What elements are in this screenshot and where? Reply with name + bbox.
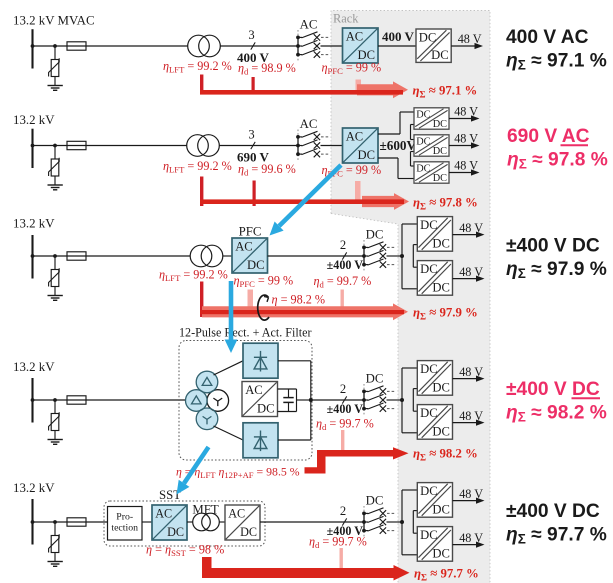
svg-text:±400 V DC: ±400 V DC bbox=[506, 379, 600, 400]
svg-text:DC: DC bbox=[433, 119, 447, 130]
thyristor rectifier U11 row 4 bottom bbox=[243, 423, 278, 458]
svg-text:48 V: 48 V bbox=[459, 487, 483, 501]
efficiency bracket bar eta_LFT row 1 bbox=[200, 75, 203, 95]
flow arrow row4 to row5 bbox=[177, 447, 209, 495]
svg-text:DC: DC bbox=[420, 528, 438, 542]
efficiency bracket bar eta_PFC row 3 bbox=[248, 290, 254, 318]
SST dashed box bbox=[104, 501, 265, 546]
svg-text:AC: AC bbox=[155, 507, 172, 521]
svg-text:DC: DC bbox=[433, 173, 447, 184]
efficiency horizontal bar row 2 bbox=[200, 199, 404, 204]
conductor count tick 2 row 3 bbox=[340, 238, 347, 260]
wire 48V output arrow 1 row 5 bbox=[453, 487, 485, 504]
svg-text:13.2 kV: 13.2 kV bbox=[13, 360, 55, 374]
svg-text:DC: DC bbox=[432, 503, 450, 517]
wire series link a row 2 bbox=[411, 124, 415, 126]
conductor count tick 3 row 2 bbox=[248, 128, 255, 150]
wire 48V output arrow 1 row 3 bbox=[453, 221, 485, 238]
rectifier U7 PFC AC/DC row 3 bbox=[232, 238, 268, 273]
svg-text:DC: DC bbox=[420, 362, 438, 376]
junction on bus row 3 bbox=[31, 254, 35, 258]
rectifier U3 AC/DC PFC row 2 bbox=[343, 128, 379, 163]
wire switch to junction row 4 bbox=[387, 399, 403, 401]
fuse F2 bbox=[67, 145, 86, 147]
active filter U12 AC/DC row 4 bbox=[242, 382, 278, 417]
converter U2 DC/DC row 1 bbox=[416, 29, 451, 62]
svg-text:AC: AC bbox=[228, 507, 245, 521]
junction on bus row 1 bbox=[31, 44, 35, 48]
svg-text:48 V: 48 V bbox=[459, 365, 483, 379]
wire fuse to transformer row 1 bbox=[86, 45, 188, 47]
wire SST to switch row 5 bbox=[260, 521, 364, 523]
efficiency bracket bar eta_d row 2 bbox=[253, 181, 256, 207]
svg-text:DC: DC bbox=[257, 402, 275, 416]
protection box row 5 bbox=[108, 507, 143, 541]
rectifier U1 AC/DC PFC bbox=[343, 28, 379, 63]
bus bar row 5 bbox=[31, 499, 33, 545]
transformer MFT row 5 bbox=[193, 513, 211, 531]
wire +600V to stack row 2 bbox=[378, 133, 400, 135]
svg-text:DC: DC bbox=[432, 281, 450, 295]
flow arrow row2 to row3 bbox=[270, 165, 342, 236]
junction dc node row 4 bbox=[309, 398, 313, 402]
wire arrester to ground row 3 bbox=[54, 287, 56, 296]
svg-text:13.2 kV: 13.2 kV bbox=[13, 481, 55, 495]
result label row 1 bbox=[506, 27, 607, 72]
wire arrester stub row 3 bbox=[54, 256, 56, 270]
wire bus to fuse row 4 bbox=[33, 399, 68, 401]
surge arrester MOV row 5 bbox=[51, 536, 59, 553]
efficiency bracket bar eta_PFC row 1 bbox=[356, 80, 362, 91]
wire arrester to ground row 4 bbox=[54, 431, 56, 440]
capacitor C1 row 4 bbox=[288, 389, 290, 398]
efficiency arrow row 2 bbox=[362, 193, 409, 210]
junction arrester tap row 3 bbox=[53, 254, 57, 258]
wire fuse to transformer row 3 bbox=[86, 255, 190, 257]
fuse F4 bbox=[67, 399, 86, 401]
wire switch to junction row 3 bbox=[387, 255, 403, 257]
bus bar row 1 bbox=[31, 29, 33, 68]
efficiency bracket bar eta_PFC row 2 bbox=[355, 181, 361, 201]
wire protection to converter row 5 bbox=[142, 521, 152, 523]
converter U8 DC/DC row 3 top bbox=[417, 217, 452, 252]
wire fuse to SST row 5 bbox=[86, 521, 107, 523]
ground row 2 bbox=[48, 184, 63, 186]
surge arrester MOV row 1 bbox=[51, 60, 59, 77]
svg-text:2: 2 bbox=[340, 504, 346, 518]
svg-text:AC: AC bbox=[346, 30, 364, 44]
svg-text:PFC: PFC bbox=[239, 225, 262, 239]
junction arrester tap row 1 bbox=[53, 44, 57, 48]
svg-text:DC: DC bbox=[432, 381, 450, 395]
svg-text:DC: DC bbox=[416, 164, 430, 175]
switch-fuse group AC row 2 bbox=[296, 117, 329, 162]
result label row 3 bbox=[506, 236, 607, 281]
efficiency bracket bar eta_LFT row 2 bbox=[200, 177, 203, 207]
result label row 5 bbox=[506, 501, 607, 546]
efficiency horizontal bar row 1 bbox=[200, 90, 403, 95]
bus bar row 2 bbox=[31, 129, 33, 168]
wire transformer to switch row 2 bbox=[219, 145, 298, 147]
svg-text:DC: DC bbox=[432, 547, 450, 561]
svg-text:DC: DC bbox=[432, 237, 450, 251]
converter U4 DC/DC row 2 top bbox=[414, 108, 449, 130]
svg-text:400 V: 400 V bbox=[382, 29, 415, 44]
conductor count tick 2 row 5 bbox=[340, 504, 347, 526]
wire arrester to ground row 2 bbox=[54, 176, 56, 185]
surge arrester MOV row 2 bbox=[51, 159, 59, 176]
wire capacitor bus to node row 4 bbox=[297, 399, 311, 401]
surge arrester MOV row 4 bbox=[51, 414, 59, 431]
svg-text:3: 3 bbox=[248, 128, 254, 142]
fuse F1 bbox=[67, 45, 86, 47]
converter U15 AC/DC SST row 5 bbox=[152, 505, 187, 540]
wire 48V output arrow 2 row 4 bbox=[453, 409, 485, 426]
svg-text:DC: DC bbox=[247, 258, 265, 272]
converter U9 DC/DC row 3 bottom bbox=[417, 261, 452, 296]
svg-text:3: 3 bbox=[248, 28, 254, 42]
junction on bus row 4 bbox=[31, 398, 35, 402]
wire 48V output arrow 2 row 5 bbox=[453, 531, 485, 548]
wire transformer to switch row 1 bbox=[220, 45, 298, 47]
svg-text:DC: DC bbox=[240, 525, 257, 539]
svg-text:DC: DC bbox=[419, 31, 437, 45]
switch-fuse group DC row 4 bbox=[362, 372, 395, 417]
wire bus to fuse row 3 bbox=[33, 255, 68, 257]
svg-text:AC: AC bbox=[346, 130, 364, 144]
efficiency arrow row 3 bbox=[202, 303, 408, 320]
wire top thyristor to dc node row 4 bbox=[278, 360, 311, 362]
three-winding transformer cluster row 4 bbox=[186, 371, 229, 429]
svg-text:DC: DC bbox=[420, 218, 438, 232]
bus bar row 4 bbox=[31, 378, 33, 423]
wire fuse to transformer row 2 bbox=[86, 145, 187, 147]
wire cluster to bottom thyristor row 4 bbox=[214, 426, 244, 440]
wire arrester stub row 5 bbox=[54, 522, 56, 536]
wire arrester stub row 2 bbox=[54, 146, 56, 160]
svg-text:690 V AC: 690 V AC bbox=[507, 126, 590, 147]
wire bottom thyristor to dc node row 4 bbox=[278, 439, 311, 441]
wire arrester stub row 1 bbox=[54, 46, 56, 60]
wire bus to fuse row 2 bbox=[33, 145, 68, 147]
svg-text:DC: DC bbox=[416, 110, 430, 121]
efficiency bracket bar eta_d row 3 bbox=[341, 290, 344, 308]
ground row 4 bbox=[48, 439, 63, 441]
thyristor rectifier U10 row 4 top bbox=[243, 343, 278, 378]
svg-text:DC: DC bbox=[420, 406, 438, 420]
wire series link row 3 bbox=[413, 244, 417, 246]
wire bus to fuse row 1 bbox=[33, 45, 68, 47]
wire 48V output arrow 2 row 3 bbox=[453, 265, 485, 282]
converter U5 DC/DC row 2 mid bbox=[414, 135, 449, 157]
svg-text:2: 2 bbox=[340, 238, 346, 252]
conductor count tick 2 row 4 bbox=[340, 382, 347, 404]
switch-fuse group DC row 5 bbox=[362, 494, 395, 539]
converter U13 DC/DC row 4 top bbox=[417, 361, 452, 396]
wire arrester to ground row 5 bbox=[54, 553, 56, 562]
svg-text:48 V: 48 V bbox=[458, 32, 482, 46]
svg-text:DC: DC bbox=[366, 228, 384, 242]
junction node row 4 bbox=[400, 398, 404, 402]
converter U6 DC/DC row 2 bottom bbox=[414, 162, 449, 184]
converter U18 DC/DC row 5 bottom bbox=[417, 527, 452, 562]
wire filter outputs row 4 bbox=[278, 388, 297, 390]
junction on bus row 5 bbox=[31, 520, 35, 524]
svg-text:13.2 kV MVAC: 13.2 kV MVAC bbox=[13, 14, 95, 28]
efficiency horizontal bar row 3 bbox=[200, 310, 404, 314]
wire PFC to switch row 3 bbox=[268, 255, 365, 257]
svg-text:13.2 kV: 13.2 kV bbox=[13, 216, 55, 230]
junction arrester tap row 5 bbox=[53, 520, 57, 524]
wire junction to upper DC/DC row 5 bbox=[401, 490, 403, 522]
wire arrester stub row 4 bbox=[54, 400, 56, 414]
transformer LFT row 3 bbox=[190, 245, 212, 267]
svg-text:400 V AC: 400 V AC bbox=[506, 27, 589, 48]
svg-text:DC: DC bbox=[167, 525, 184, 539]
converter U16 AC/DC row 5 bbox=[225, 505, 260, 540]
ground row 5 bbox=[48, 561, 63, 563]
svg-text:AC: AC bbox=[300, 18, 318, 32]
svg-text:48 V: 48 V bbox=[459, 265, 483, 279]
result label row 2 bbox=[507, 126, 608, 171]
result label row 4 bbox=[506, 379, 607, 424]
svg-text:DC: DC bbox=[366, 372, 384, 386]
svg-text:DC: DC bbox=[366, 494, 384, 508]
svg-text:DC: DC bbox=[431, 48, 449, 62]
flow arrow row3 to row4 bbox=[225, 281, 238, 353]
wire 48V output arrow 1 row 4 bbox=[453, 365, 485, 382]
rack shaded panel bbox=[331, 11, 490, 583]
svg-text:±400 V DC: ±400 V DC bbox=[506, 501, 600, 522]
svg-text:AC: AC bbox=[300, 117, 318, 131]
efficiency arrow row 1 bbox=[357, 81, 408, 98]
efficiency bracket bar eta_d row 1 bbox=[252, 77, 255, 95]
ground row 3 bbox=[48, 295, 63, 297]
svg-text:DC: DC bbox=[420, 484, 438, 498]
wire cluster to top thyristor row 4 bbox=[214, 361, 244, 375]
svg-text:±400 V: ±400 V bbox=[327, 258, 364, 272]
surge arrester MOV row 3 bbox=[51, 270, 59, 287]
switch-fuse group DC row 3 bbox=[362, 228, 395, 273]
junction arrester tap row 4 bbox=[53, 398, 57, 402]
svg-text:2: 2 bbox=[340, 382, 346, 396]
junction node row 3 bbox=[400, 254, 404, 258]
wire series link b row 2 bbox=[411, 151, 415, 153]
conductor count tick 3 row 1 bbox=[248, 28, 255, 50]
svg-text:Rack: Rack bbox=[333, 11, 359, 25]
wire switch to rectifier row 2 bbox=[321, 145, 343, 147]
wire series link row 5 bbox=[413, 510, 417, 512]
junction arrester tap row 2 bbox=[53, 144, 57, 148]
wire converter to MFT row 5 bbox=[187, 521, 193, 523]
svg-text:η = 98.2 %: η = 98.2 % bbox=[272, 293, 326, 307]
12-pulse block dashed box bbox=[179, 341, 312, 461]
ground row 1 bbox=[48, 85, 63, 87]
efficiency bracket bar eta_d row 5 bbox=[340, 548, 343, 569]
svg-text:48 V: 48 V bbox=[454, 105, 478, 119]
svg-text:DC: DC bbox=[420, 262, 438, 276]
svg-text:AC: AC bbox=[235, 240, 253, 254]
rack panel dotted border bbox=[331, 11, 490, 583]
efficiency staircase row 5 bbox=[202, 557, 410, 581]
transformer LFT row 2 bbox=[187, 135, 209, 157]
wire 48V output arrow 2 row 2 bbox=[449, 132, 480, 149]
svg-text:48 V: 48 V bbox=[454, 132, 478, 146]
wire bus to fuse row 5 bbox=[33, 521, 68, 523]
svg-text:48 V: 48 V bbox=[459, 531, 483, 545]
wire junction to lower DC/DC row 3 bbox=[401, 256, 403, 289]
wire junction to lower DC/DC row 5 bbox=[401, 522, 403, 555]
wire -600V to stack row 2 bbox=[378, 157, 398, 159]
svg-text:Pro-: Pro- bbox=[116, 512, 133, 523]
svg-text:48 V: 48 V bbox=[459, 221, 483, 235]
wire transformer to PFC row 3 bbox=[223, 255, 232, 257]
svg-text:12-Pulse Rect. + Act. Filter: 12-Pulse Rect. + Act. Filter bbox=[179, 326, 312, 340]
svg-text:±600V: ±600V bbox=[380, 138, 417, 153]
wire 48V output arrow 3 row 2 bbox=[449, 159, 480, 176]
svg-text:η = ηSST = 98 %: η = ηSST = 98 % bbox=[146, 543, 224, 559]
wire junction to upper DC/DC row 4 bbox=[401, 368, 403, 400]
bus bar row 3 bbox=[31, 235, 33, 279]
fuse F5 bbox=[67, 521, 86, 523]
wire fuse to 12-pulse block row 4 bbox=[86, 399, 186, 401]
svg-text:±400 V: ±400 V bbox=[327, 402, 364, 416]
svg-text:48 V: 48 V bbox=[459, 409, 483, 423]
wire MFT to converter row 5 bbox=[219, 521, 225, 523]
svg-text:tection: tection bbox=[111, 523, 138, 534]
wire series link row 4 bbox=[413, 388, 417, 390]
wire 48V output arrow 1 row 1 bbox=[451, 32, 483, 49]
fuse F3 bbox=[67, 255, 86, 257]
transformer LFT row 1 bbox=[188, 35, 210, 57]
svg-text:48 V: 48 V bbox=[454, 159, 478, 173]
efficiency staircase row 4 bbox=[305, 447, 409, 473]
svg-text:DC: DC bbox=[358, 148, 376, 162]
svg-text:±400 V DC: ±400 V DC bbox=[506, 236, 600, 257]
wire dc link row 1 bbox=[378, 45, 416, 47]
svg-text:DC: DC bbox=[433, 146, 447, 157]
converter U17 DC/DC row 5 top bbox=[417, 483, 452, 518]
efficiency bracket bar eta_d row 4 bbox=[341, 430, 344, 450]
svg-text:DC: DC bbox=[416, 137, 430, 148]
svg-text:13.2 kV: 13.2 kV bbox=[13, 113, 55, 127]
junction node row 5 bbox=[400, 520, 404, 524]
wire junction to upper DC/DC row 3 bbox=[401, 224, 403, 256]
efficiency bracket bar eta_LFT row 3 bbox=[200, 282, 203, 318]
wire arrester to ground row 1 bbox=[54, 77, 56, 86]
circular arrow symbol row 3 bbox=[258, 295, 269, 320]
svg-text:AC: AC bbox=[245, 383, 263, 397]
converter U14 DC/DC row 4 bottom bbox=[417, 405, 452, 440]
wire switch to rectifier row 1 bbox=[321, 45, 343, 47]
wire switch to junction row 5 bbox=[387, 521, 403, 523]
wire 48V output arrow 1 row 2 bbox=[449, 105, 480, 122]
junction on bus row 2 bbox=[31, 144, 35, 148]
wire junction to lower DC/DC row 4 bbox=[401, 400, 403, 433]
switch-fuse group AC row 1 bbox=[296, 18, 329, 63]
svg-text:DC: DC bbox=[432, 425, 450, 439]
wire node to switch row 4 bbox=[311, 399, 364, 401]
